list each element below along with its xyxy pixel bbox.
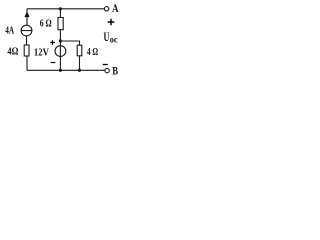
wire middle to right corner: [60, 41, 79, 45]
svg-text:4Ω: 4Ω: [7, 46, 18, 57]
wire top: [27, 8, 104, 10]
junction middle node: [59, 39, 62, 42]
current source I1 4A: [21, 25, 32, 36]
wire 6ohm bottom lead: [59, 30, 61, 41]
wire 4A source mid lead: [26, 36, 28, 45]
junction bottom node left: [59, 69, 62, 72]
wire bottom: [27, 69, 105, 71]
label Uoc: [104, 30, 118, 45]
svg-text:A: A: [112, 1, 119, 15]
svg-text:oc: oc: [110, 35, 118, 45]
label plus of 12V: [50, 40, 55, 45]
junction bottom node right: [78, 69, 81, 72]
arrow current direction up: [24, 11, 29, 17]
resistor R1 4ohm left: [24, 45, 29, 56]
wire 6ohm top lead: [59, 9, 61, 18]
wire 12V source through-lead: [59, 41, 61, 70]
svg-text:B: B: [112, 64, 118, 78]
terminal B: [105, 64, 118, 78]
svg-text:4 Ω: 4 Ω: [87, 46, 98, 58]
resistor R3 4ohm right: [77, 45, 82, 56]
voltage source V1 12V: [55, 46, 66, 57]
label minus of 12V: [51, 62, 56, 64]
wire right resistor bottom lead: [79, 56, 81, 70]
wire left branch upper lead: [26, 9, 28, 25]
terminal A: [104, 1, 118, 15]
svg-text:12V: 12V: [34, 47, 49, 59]
svg-text:U: U: [104, 30, 110, 44]
svg-text:4A: 4A: [5, 25, 14, 36]
wire left branch lower lead: [26, 56, 28, 70]
svg-text:6 Ω: 6 Ω: [40, 19, 52, 30]
resistor R2 6ohm: [58, 18, 63, 30]
junction top node: [59, 7, 62, 10]
label minus of Uoc port: [103, 64, 108, 66]
label plus of Uoc port: [108, 19, 115, 25]
